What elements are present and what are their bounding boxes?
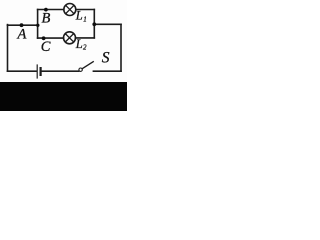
wire: bottom branch left (to L2) xyxy=(38,37,64,39)
lamp L1 xyxy=(64,4,76,16)
wire: right merge vertical xyxy=(93,10,95,38)
wire: top branch right (L1 to corner) xyxy=(76,9,95,11)
lamp L2 xyxy=(64,32,76,44)
wire: split vertical (A junction) xyxy=(37,10,39,39)
svg-text:L: L xyxy=(75,9,83,23)
node C dot xyxy=(42,36,46,40)
wire: node A horizontal xyxy=(8,24,38,26)
svg-text:B: B xyxy=(42,11,51,27)
wire: mid horizontal to right side xyxy=(94,23,121,25)
svg-text:2: 2 xyxy=(83,43,87,51)
wire: bottom left (to battery) xyxy=(8,70,37,72)
switch S pivot circle xyxy=(79,68,82,71)
svg-text:C: C xyxy=(41,39,51,55)
switch S lever xyxy=(82,62,93,69)
wire: top branch left (to L1) xyxy=(38,9,64,11)
wire: bottom branch right (L2 to merge) xyxy=(76,37,95,39)
node B dot xyxy=(44,8,48,12)
wire: battery to switch xyxy=(42,70,79,72)
node A dot xyxy=(20,23,24,27)
right junction dot xyxy=(92,22,96,26)
svg-text:S: S xyxy=(102,50,110,67)
wire: right vertical xyxy=(120,24,122,71)
svg-text:1: 1 xyxy=(83,15,87,23)
background xyxy=(0,0,127,111)
svg-text:A: A xyxy=(17,27,27,43)
svg-text:L: L xyxy=(75,37,83,51)
junction dot at split xyxy=(36,24,39,27)
battery short plate xyxy=(39,68,41,75)
battery long plate xyxy=(36,65,38,78)
wire: left vertical xyxy=(7,25,9,72)
wire: switch to right corner xyxy=(93,70,121,72)
black bar at bottom xyxy=(0,82,127,111)
